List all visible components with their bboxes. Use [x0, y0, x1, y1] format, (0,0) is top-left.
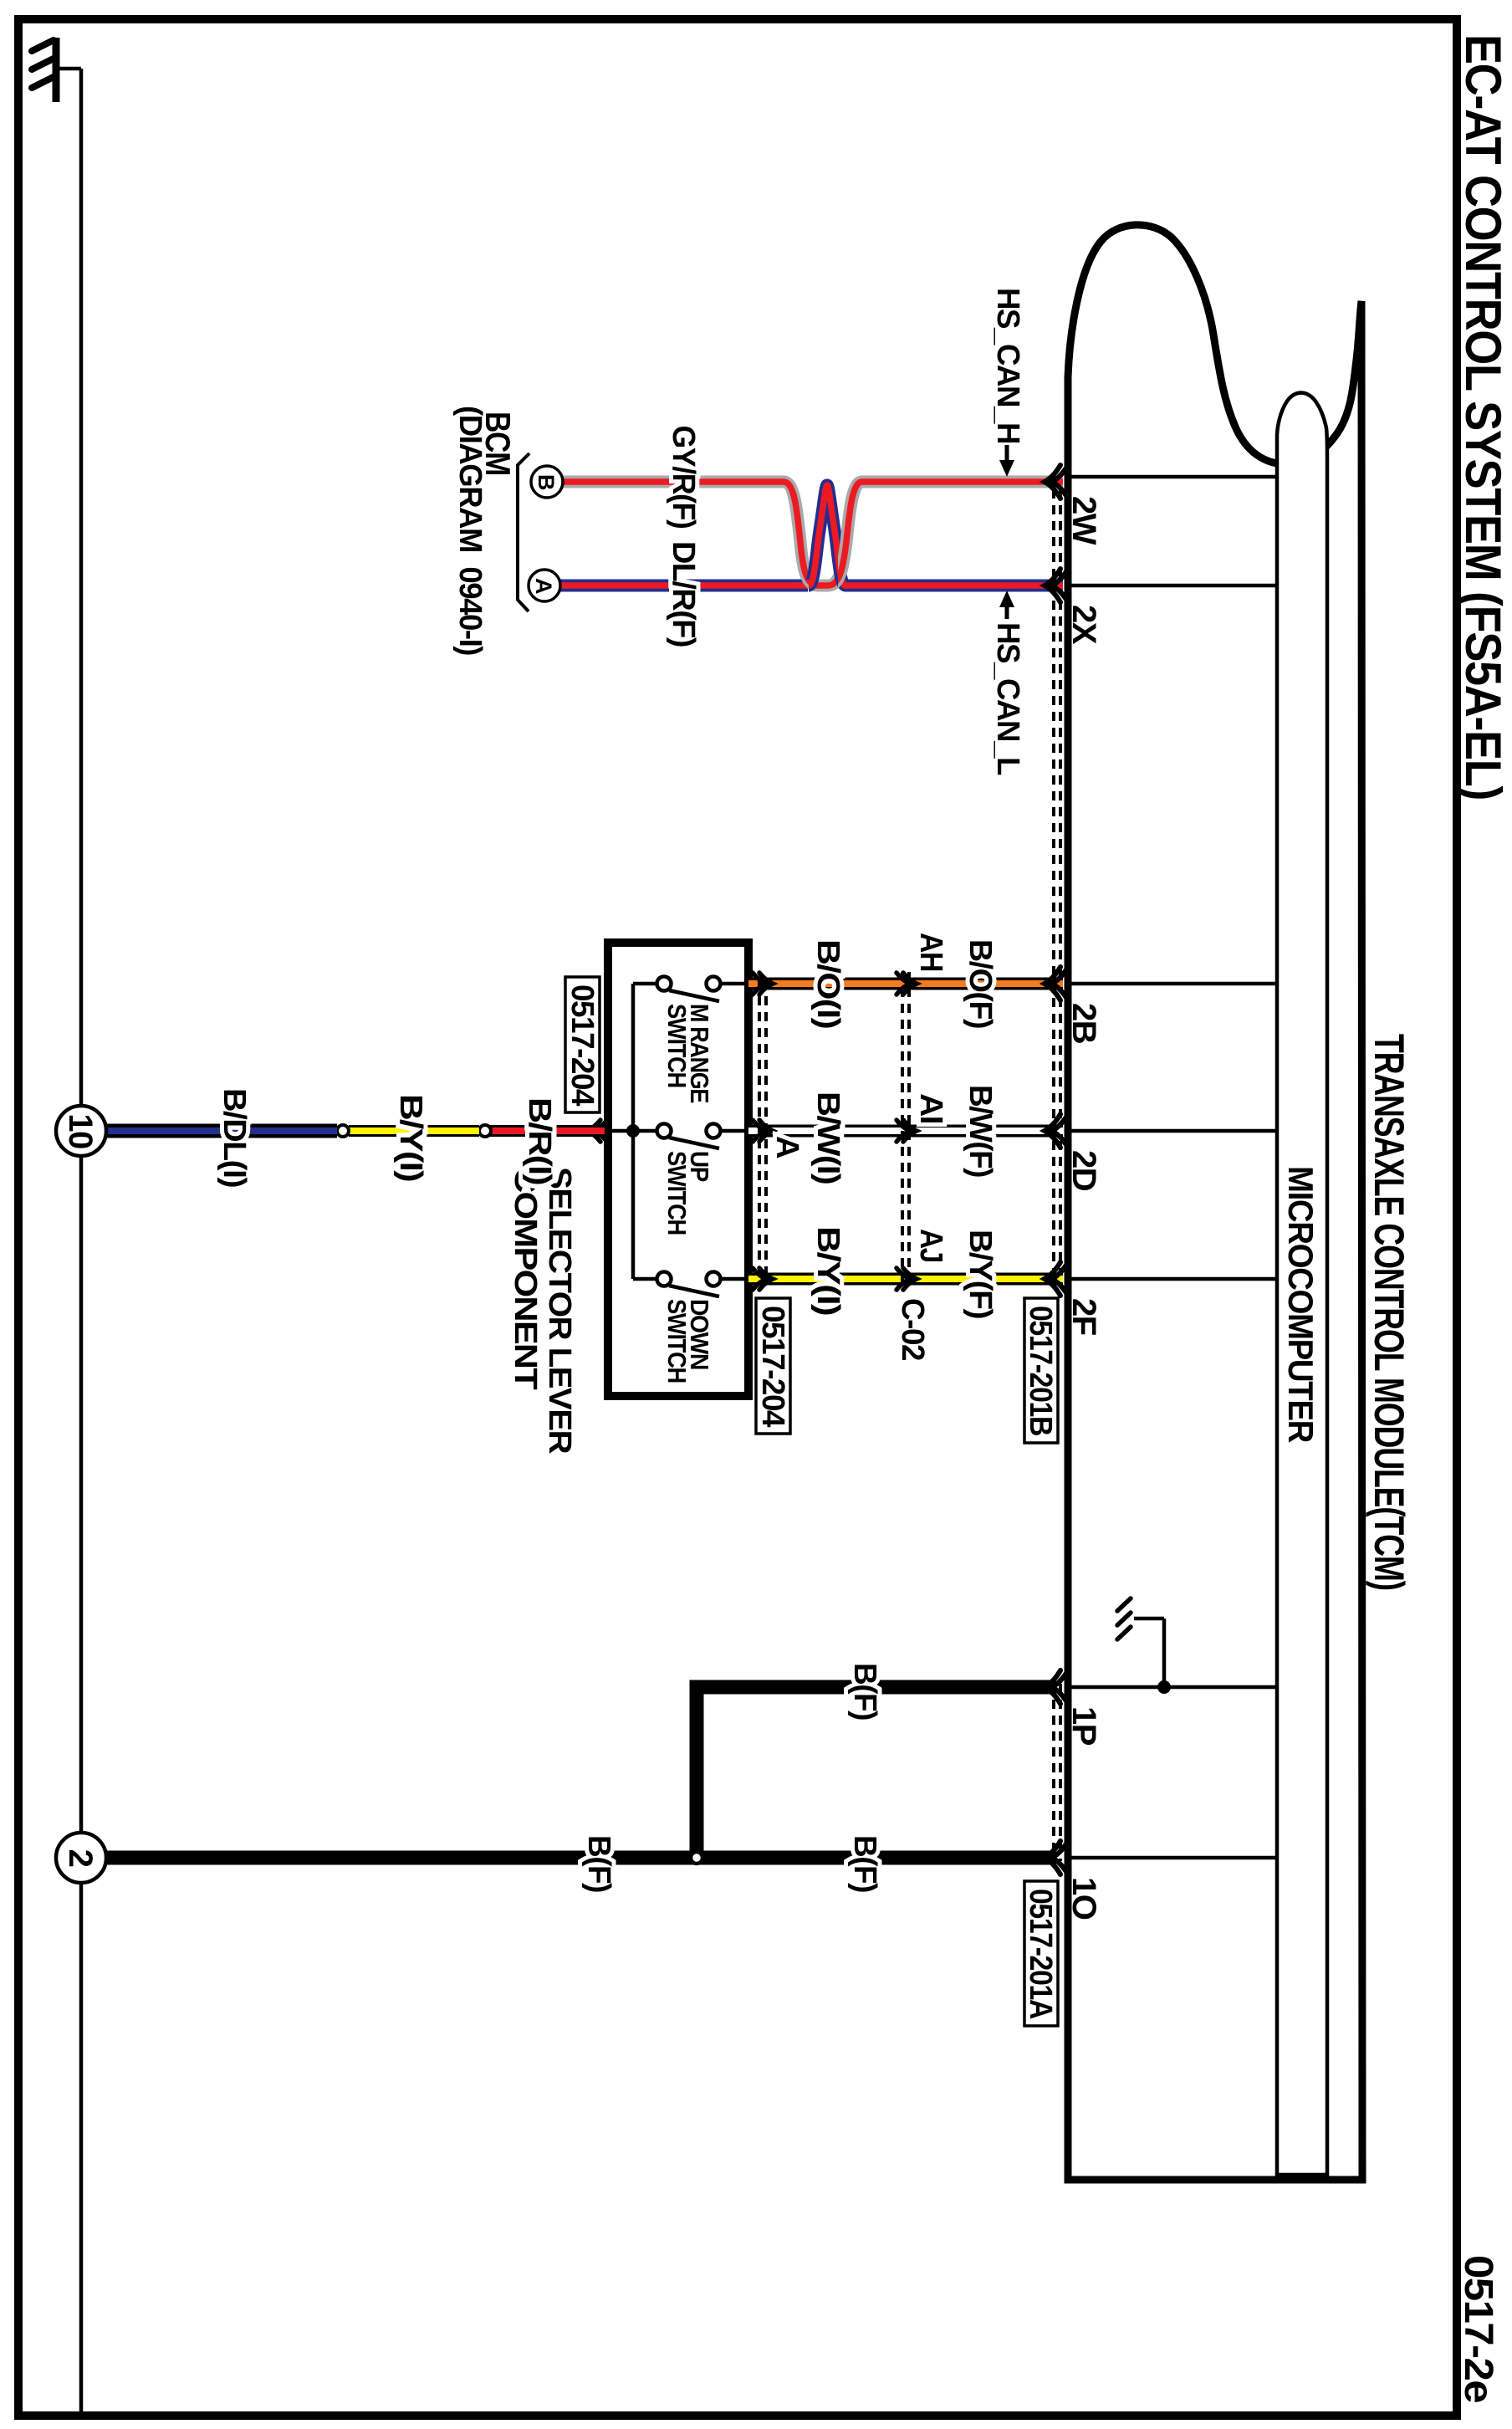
- microcomputer box with torn left end: [1277, 393, 1327, 2175]
- svg-text:B/O(I): B/O(I): [810, 939, 845, 1028]
- chevrons at C-02 (B/O wire): [896, 973, 917, 995]
- svg-text:SWITCH: SWITCH: [662, 1299, 692, 1383]
- svg-text:0517-201B: 0517-201B: [1023, 1306, 1058, 1435]
- chevrons at TCM pin 2W: [1045, 465, 1068, 499]
- wire GY/R(F) vertical (CAN high) from TCM 2W down to terminal B: [861, 476, 1063, 488]
- terminal B circle: [531, 466, 563, 498]
- connector 0517-204 dashed lines at box exit: [764, 980, 768, 1282]
- svg-text:HS_CAN_H: HS_CAN_H: [990, 288, 1025, 443]
- svg-text:2: 2: [62, 1849, 99, 1867]
- chevrons at selector box exit (B/W wire): [753, 1120, 773, 1142]
- connector circle 2: [56, 1833, 106, 1883]
- svg-text:1O: 1O: [1065, 1877, 1102, 1920]
- svg-text:B/DL(I): B/DL(I): [217, 1088, 252, 1187]
- svg-text:MICROCOMPUTER: MICROCOMPUTER: [1281, 1166, 1320, 1443]
- svg-text:B/O(F): B/O(F): [963, 939, 998, 1028]
- chevrons at TCM pin 2X: [1045, 569, 1068, 602]
- svg-text:A: A: [531, 578, 556, 594]
- svg-text:EC-AT CONTROL SYSTEM (FS5A-EL): EC-AT CONTROL SYSTEM (FS5A-EL): [1455, 34, 1511, 800]
- svg-text:(DIAGRAM 0940-I): (DIAGRAM 0940-I): [452, 406, 488, 655]
- TCM outline (TRANSAXLE CONTROL MODULE) with torn left edge: [1068, 225, 1362, 2180]
- svg-text:0517-201A: 0517-201A: [1023, 1889, 1058, 2019]
- twisted pair crossover: [784, 482, 862, 586]
- wire B/DL(I) dark blue (chain): [106, 1124, 337, 1138]
- wire B/R(I) red: [485, 1125, 605, 1137]
- svg-text:COMPONENT: COMPONENT: [508, 1167, 543, 1389]
- chevrons at C-02 (B/W wire): [896, 1120, 917, 1142]
- svg-text:B/W(F): B/W(F): [963, 1085, 998, 1177]
- selector lever component box: [608, 943, 748, 1396]
- connector label 0517-204 (lower): [564, 977, 600, 1112]
- connector 0517-201A dashed lines at TCM: [1059, 1684, 1062, 1861]
- svg-text:1P: 1P: [1065, 1706, 1102, 1746]
- pin stub 2X: [1068, 584, 1277, 588]
- chevrons at TCM pin 2D: [1045, 1114, 1068, 1148]
- svg-text:AI: AI: [913, 1093, 948, 1123]
- chevrons at selector box exit (B/Y wire): [753, 1268, 773, 1290]
- chevrons at TCM pin 1O: [1045, 1841, 1068, 1874]
- BCM bracket: [518, 453, 529, 611]
- wire B(F) thick from TCM 1P: [697, 1687, 1056, 1858]
- svg-text:SWITCH: SWITCH: [662, 1151, 692, 1235]
- selector common bus: [631, 984, 636, 1279]
- svg-text:B(F): B(F): [847, 1835, 882, 1892]
- svg-text:SELECTOR LEVER: SELECTOR LEVER: [542, 1167, 577, 1454]
- wire DL/R(F) vertical (CAN low) from TCM 2X down to terminal A: [845, 580, 1063, 592]
- svg-text:AH: AH: [913, 933, 948, 971]
- TCM internal ground near pin 1P: [1117, 1598, 1171, 1694]
- M range switch: [633, 977, 748, 1103]
- connector label 0517-201B: [1023, 1298, 1058, 1443]
- svg-text:TRANSAXLE CONTROL MODULE(TCM): TRANSAXLE CONTROL MODULE(TCM): [1366, 1034, 1412, 1590]
- node A junction dot: [626, 1124, 640, 1138]
- pin stub 1P: [1068, 1685, 1277, 1690]
- chevrons at selector box bottom entry (B/R): [587, 1120, 607, 1142]
- connector 0517-201B dashed lines at TCM: [1059, 473, 1062, 1282]
- svg-text:B/Y(I): B/Y(I): [393, 1094, 428, 1181]
- junction dot (open): [337, 1125, 349, 1137]
- chevrons at selector box exit (B/O wire): [753, 973, 773, 995]
- svg-text:B(F): B(F): [581, 1835, 616, 1892]
- svg-text:B/Y(F): B/Y(F): [963, 1230, 998, 1318]
- chevrons at C-02 (B/Y wire): [896, 1268, 917, 1290]
- chevrons at TCM pin 2F: [1045, 1262, 1068, 1296]
- wire B/W (up) from box to TCM 2D: [748, 1125, 1063, 1138]
- svg-text:2B: 2B: [1065, 1003, 1102, 1044]
- svg-text:2F: 2F: [1065, 1298, 1102, 1335]
- pin stub 2F: [1068, 1277, 1277, 1281]
- svg-text:GY/R(F): GY/R(F): [666, 426, 701, 529]
- pin stub 2D: [1068, 1129, 1277, 1133]
- page ground symbol (chassis ground, bottom left): [32, 38, 81, 102]
- svg-text:B: B: [534, 474, 559, 490]
- svg-text:C-02: C-02: [895, 1298, 930, 1360]
- svg-text:0517-204: 0517-204: [564, 984, 600, 1106]
- svg-text:0517-204: 0517-204: [755, 1306, 790, 1427]
- chevrons at TCM pin 2B: [1045, 967, 1068, 1000]
- up switch: [633, 1124, 748, 1235]
- inline connector C-02 dashed lines: [907, 972, 911, 1290]
- chevrons at TCM pin 1P: [1045, 1670, 1068, 1704]
- pin stub 2B: [1068, 982, 1277, 986]
- svg-text:A: A: [769, 1136, 805, 1158]
- wire B/Y(I) yellow (chain): [349, 1125, 479, 1137]
- svg-text:HS_CAN_L: HS_CAN_L: [990, 622, 1025, 775]
- terminal A circle: [529, 570, 560, 601]
- junction dot (open) on B(F): [691, 1852, 702, 1864]
- connector label 0517-204 (upper): [755, 1298, 790, 1434]
- wire B(F) thick from TCM 1O down to connector 2: [106, 1851, 1056, 1865]
- svg-text:2D: 2D: [1065, 1150, 1102, 1191]
- svg-text:B/W(I): B/W(I): [810, 1092, 845, 1184]
- wire B/O orange (M range) from box to TCM 2B: [748, 978, 1063, 990]
- ground bus wire (bottom): [79, 69, 84, 2414]
- svg-text:SWITCH: SWITCH: [662, 1004, 692, 1087]
- svg-text:B/Y(I): B/Y(I): [810, 1226, 845, 1315]
- junction dot (open): [479, 1125, 491, 1137]
- pin stub 2W: [1068, 475, 1277, 479]
- svg-text:2W: 2W: [1065, 496, 1102, 545]
- svg-text:AJ: AJ: [913, 1229, 948, 1262]
- svg-text:10: 10: [62, 1113, 99, 1148]
- connector circle 10: [56, 1106, 106, 1156]
- svg-text:B/R(I): B/R(I): [522, 1097, 557, 1184]
- connector label 0517-201A: [1023, 1881, 1058, 2026]
- svg-text:2X: 2X: [1065, 605, 1102, 645]
- down switch: [633, 1272, 748, 1383]
- wire B/Y yellow (down) from box to TCM 2F: [748, 1273, 1063, 1286]
- svg-text:B(F): B(F): [847, 1663, 882, 1720]
- svg-text:DL/R(F): DL/R(F): [666, 541, 701, 647]
- pin stub 1O: [1068, 1856, 1277, 1860]
- svg-text:0517-2e: 0517-2e: [1456, 2255, 1500, 2403]
